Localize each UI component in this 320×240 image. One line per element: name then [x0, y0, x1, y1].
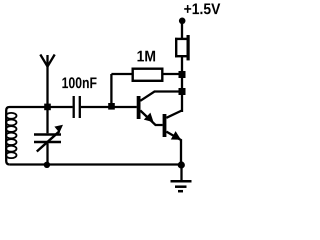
- node: junction tank bottom: [44, 162, 50, 168]
- label +1.5V: [184, 3, 220, 14]
- wire: bottom rail: [10, 163, 182, 165]
- inductor L1: [6, 107, 48, 165]
- capacitor C1 100nF: [74, 96, 80, 118]
- wire: 1M to rail: [164, 73, 183, 75]
- transistor Q1: [137, 92, 182, 126]
- transistor Q2: [163, 111, 182, 166]
- wire: tank to C1: [48, 106, 73, 108]
- wire: supply rail down: [181, 57, 183, 112]
- label 1M: [137, 51, 155, 62]
- wire: bias horizontal to 1M: [111, 73, 132, 75]
- resistor R1: [175, 35, 190, 60]
- node: varcap arrow head: [54, 125, 63, 133]
- antenna: [40, 55, 54, 108]
- node: junction 1M/rail: [179, 71, 186, 78]
- wire: bias vertical: [110, 74, 112, 107]
- variable capacitor C2: [34, 107, 61, 165]
- wire: C1 to Q1 base: [81, 106, 137, 108]
- node: junction Q1 collector/rail: [179, 88, 186, 95]
- node: supply dot: [179, 18, 186, 25]
- resistor R2 1M: [133, 69, 163, 81]
- wire: supply stub: [181, 23, 183, 38]
- node: junction C1/bias: [108, 103, 115, 110]
- ground: [171, 165, 192, 191]
- node: junction tank/antenna: [44, 104, 51, 111]
- label 100nF: [62, 77, 96, 88]
- node: junction emitter/ground: [178, 161, 185, 168]
